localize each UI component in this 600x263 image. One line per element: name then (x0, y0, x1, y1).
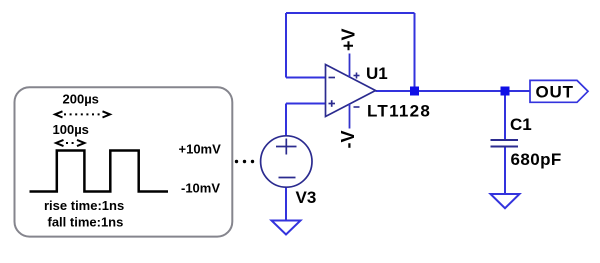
wire feedback top (286, 12, 415, 14)
voltage source V3 (261, 136, 312, 187)
wire output (376, 90, 531, 92)
ground below C1 (491, 194, 520, 208)
wire feedback left vertical (285, 13, 287, 78)
svg-text:-V: -V (338, 131, 358, 149)
op-amp positive supply pin (349, 54, 351, 78)
arrow 100us (56, 140, 85, 146)
svg-text:LT1128: LT1128 (367, 102, 431, 121)
svg-text:rise time:1ns: rise time:1ns (44, 198, 124, 213)
op-amp inverting sign (329, 77, 336, 79)
wire capacitor top (504, 91, 506, 140)
wire feedback right vertical (414, 13, 416, 91)
annotation box (15, 87, 233, 236)
svg-text:U1: U1 (366, 64, 388, 83)
svg-text:100µs: 100µs (53, 122, 89, 137)
svg-text:+10mV: +10mV (179, 142, 222, 157)
pulse waveform (30, 151, 169, 192)
svg-text:fall time:1ns: fall time:1ns (48, 214, 124, 229)
net flag OUT (530, 80, 588, 102)
svg-text:-10mV: -10mV (181, 181, 220, 196)
svg-text:200µs: 200µs (63, 92, 99, 107)
svg-text:OUT: OUT (536, 83, 574, 102)
wire inverting input (286, 77, 326, 79)
junction output node (410, 87, 419, 96)
op-amp supply plus sign (354, 73, 360, 79)
arrow 200us (55, 111, 110, 117)
op-amp negative supply pin (349, 104, 351, 129)
svg-text:680pF: 680pF (511, 150, 562, 169)
wire noninverting input (286, 103, 326, 105)
wire V3 bottom (285, 187, 287, 221)
ellipsis dots (235, 160, 254, 163)
capacitor C1 (491, 140, 519, 147)
wire capacitor bottom (504, 147, 506, 195)
op-amp supply minus sign (354, 106, 360, 108)
op-amp U1 body (326, 65, 376, 117)
svg-text:V3: V3 (296, 188, 317, 207)
op-amp noninverting sign (329, 100, 336, 107)
junction capacitor node (501, 87, 510, 96)
svg-text:C1: C1 (510, 115, 532, 134)
ground below V3 (272, 221, 301, 235)
wire V3 top (285, 104, 287, 137)
svg-text:+V: +V (339, 28, 359, 51)
